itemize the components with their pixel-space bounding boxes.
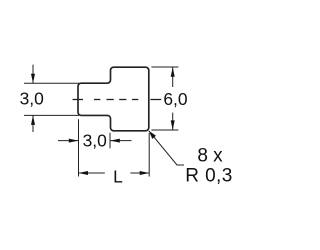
leader arrowhead at corner	[149, 131, 156, 139]
arrow left (bottom 3,0)	[110, 139, 120, 143]
dim line upper	[172, 67, 174, 87]
svg-text:3,0: 3,0	[83, 131, 107, 151]
dim line left tail	[58, 140, 78, 142]
dim line above	[32, 65, 34, 84]
dimension 3,0 (left, height of small step)	[24, 65, 79, 132]
extension line bottom	[151, 129, 178, 131]
dim line right segment	[130, 172, 149, 174]
arrow left (L)	[79, 171, 89, 175]
arrow right (L)	[140, 171, 150, 175]
dim line below	[32, 115, 34, 132]
leader line to corner radius	[149, 131, 184, 165]
dim line left segment	[79, 172, 105, 174]
svg-text:3,0: 3,0	[20, 89, 44, 109]
svg-text:8 x: 8 x	[197, 146, 223, 167]
dimension 6,0 (right, overall height)	[151, 67, 178, 130]
extension line top	[151, 66, 178, 68]
extension line left (from small block bottom-left)	[78, 119, 80, 176]
extension line right (below tall block left edge)	[109, 133, 111, 149]
dimension L (overall length)	[79, 133, 150, 177]
svg-text:6,0: 6,0	[163, 89, 187, 109]
arrow down (left 3,0)	[31, 74, 35, 84]
dim line lower	[172, 113, 174, 130]
dim line right tail	[110, 140, 131, 142]
part outline (stepped block, 8 rounded corners)	[78, 67, 149, 131]
arrow down (6,0)	[171, 120, 175, 129]
arrow up (left 3,0)	[31, 115, 35, 125]
arrow up (6,0)	[171, 67, 175, 77]
dimension 3,0 (bottom, width of small step)	[58, 119, 132, 176]
extension line bottom	[24, 114, 79, 116]
extension line right (from tall block right edge)	[148, 133, 150, 177]
svg-text:R 0,3: R 0,3	[185, 166, 232, 187]
centerline (dash-dot axis)	[73, 99, 162, 101]
extension line top	[24, 82, 79, 84]
svg-text:L: L	[113, 166, 123, 186]
arrow right (bottom 3,0)	[69, 139, 79, 143]
